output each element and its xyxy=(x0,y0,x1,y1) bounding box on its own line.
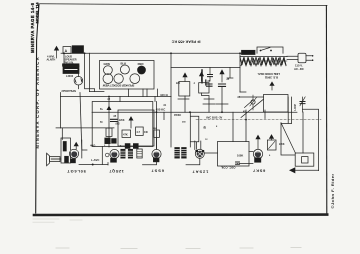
svg-text:AVC BUS -3V: AVC BUS -3V xyxy=(206,116,223,120)
svg-text:L4032: L4032 xyxy=(66,75,74,78)
wire osc box verticals xyxy=(233,112,246,141)
arrow above V5 xyxy=(255,135,260,149)
wire V4 to osc box xyxy=(204,152,217,154)
capacitor C4 xyxy=(207,84,213,86)
bleed-through marks xyxy=(33,219,301,249)
svg-text:40Ω: 40Ω xyxy=(90,143,96,147)
wire misc jogs xyxy=(155,97,265,120)
resistor R7 xyxy=(154,130,160,149)
IF coil T-A primary xyxy=(121,149,125,158)
socket pin 1 xyxy=(104,66,113,75)
socket pin 5 xyxy=(114,74,123,83)
svg-text:12SQ7: 12SQ7 xyxy=(109,169,124,174)
left audio box xyxy=(92,102,153,147)
rectifier filter box xyxy=(264,95,289,113)
wire socket box feed xyxy=(89,53,104,91)
svg-text:LOOP: LOOP xyxy=(295,104,297,111)
arrow A3 xyxy=(199,71,204,81)
oscillator section vertical xyxy=(170,53,172,147)
svg-text:22K: 22K xyxy=(176,83,181,85)
AVC dashed bus xyxy=(196,119,321,121)
svg-text:50: 50 xyxy=(100,122,103,124)
tube V2 12SQ7 xyxy=(105,149,119,165)
svg-text:L-AVC: L-AVC xyxy=(91,158,99,162)
socket pin 2 xyxy=(120,65,129,74)
svg-text:LINE CORD RES.: LINE CORD RES. xyxy=(257,72,280,76)
svg-text:440: 440 xyxy=(144,131,149,134)
wire osc box to V5 xyxy=(249,151,253,153)
wire osc jog xyxy=(202,93,216,112)
line cord resistor (ballast zigzag) xyxy=(240,57,287,66)
loop coil wires xyxy=(281,97,292,124)
page header text xyxy=(30,2,40,53)
wire horizontal y126 xyxy=(56,127,114,129)
svg-text:.25: .25 xyxy=(226,79,230,81)
phone jack circle xyxy=(74,74,83,89)
svg-text:8: 8 xyxy=(216,126,218,128)
antenna wave-trap arrow xyxy=(54,46,59,58)
svg-text:47K: 47K xyxy=(123,133,128,137)
svg-text:100K: 100K xyxy=(237,154,243,158)
capacitor C8 xyxy=(236,162,240,164)
svg-text:©John F. Rider: ©John F. Rider xyxy=(330,173,335,208)
wire vertical x79.5 xyxy=(80,93,82,151)
IF coil T1 secondary xyxy=(182,148,187,159)
resistor R1 xyxy=(106,128,112,136)
arrow A5 xyxy=(269,81,274,90)
value label cluster xyxy=(100,79,297,146)
svg-text:.01: .01 xyxy=(163,105,167,107)
wire loop left leg xyxy=(281,123,295,155)
wire diag X xyxy=(241,99,264,117)
AC switch label (dark) xyxy=(242,50,256,54)
svg-text:RED: RED xyxy=(138,62,144,66)
wire bus y112 (B+) xyxy=(92,111,297,113)
arrow in det box xyxy=(129,116,134,120)
wire bus y101 xyxy=(60,96,62,98)
speaker socket view box xyxy=(100,61,155,90)
svg-text:6SK7: 6SK7 xyxy=(252,169,265,174)
wire osc drop xyxy=(239,53,241,92)
arrow A4 xyxy=(219,69,224,82)
antenna triangle xyxy=(289,167,319,173)
capacitor C2 (dark) xyxy=(105,138,116,144)
svg-text:GRN: GRN xyxy=(104,62,110,66)
svg-text:455 KC: 455 KC xyxy=(156,108,165,112)
svg-text:455KC: 455KC xyxy=(174,114,181,117)
output field coil (dark box) xyxy=(63,64,80,74)
svg-text:250: 250 xyxy=(182,122,186,124)
svg-text:12SA7: 12SA7 xyxy=(192,170,209,175)
loop antenna box xyxy=(295,153,314,166)
svg-text:12: 12 xyxy=(205,139,208,141)
capacitor C3 (dark) xyxy=(125,144,138,149)
speaker SP xyxy=(47,153,61,166)
switch box S1 xyxy=(63,47,71,54)
resistor R6 xyxy=(267,140,276,150)
capacitor C9 xyxy=(208,67,213,81)
svg-text:220K: 220K xyxy=(119,120,125,122)
svg-text:220K: 220K xyxy=(279,144,285,146)
svg-text:A: A xyxy=(65,49,68,53)
svg-text:.002: .002 xyxy=(115,124,120,126)
junction dots xyxy=(63,52,247,120)
wire switch drop xyxy=(64,53,95,91)
tube V4 12SA7 xyxy=(186,141,204,165)
wire bus y96 xyxy=(61,96,171,98)
trimmer C7 xyxy=(300,97,305,112)
svg-text:MINERVA CORP. OF AMERICA: MINERVA CORP. OF AMERICA xyxy=(35,56,40,148)
wire extras xyxy=(120,89,246,149)
tube V1 50L6GT xyxy=(69,140,87,163)
svg-text:6SS7: 6SS7 xyxy=(151,169,164,174)
trimmer C6 xyxy=(240,95,264,110)
svg-text:.02: .02 xyxy=(107,99,111,101)
output transformer T2 xyxy=(61,138,71,163)
svg-text:ALNTH: ALNTH xyxy=(47,58,56,62)
wire osc bus y67 xyxy=(171,66,240,68)
svg-text:6: 6 xyxy=(269,155,271,157)
socket pin labels xyxy=(104,62,144,66)
svg-text:B+: B+ xyxy=(100,109,104,111)
volume control pot xyxy=(137,149,142,158)
svg-text:SPEAKER SOCKET VIEW: SPEAKER SOCKET VIEW xyxy=(102,84,134,88)
wire loop drop xyxy=(302,112,304,153)
wire loop diagonal xyxy=(281,123,296,153)
wire osc stub xyxy=(227,67,233,78)
resistor R5 xyxy=(199,70,209,93)
IF coil T-A secondary xyxy=(128,149,132,158)
arrow above V1 xyxy=(74,142,79,149)
svg-text:440 Ω: 440 Ω xyxy=(160,93,168,97)
tube V3 6SS7 xyxy=(143,149,162,164)
wire socket to bus xyxy=(129,89,158,97)
svg-text:.1: .1 xyxy=(193,83,196,85)
resistor R2 xyxy=(122,130,131,137)
wire cathode V5 xyxy=(238,163,254,165)
frame right border xyxy=(325,6,327,214)
label line cord res xyxy=(257,72,280,80)
socket pin 3 (dark) xyxy=(138,66,146,74)
wire R4 bottom xyxy=(178,96,189,99)
label under switch boxes xyxy=(64,56,77,65)
arrow above R1 xyxy=(107,106,112,110)
node junction xyxy=(92,164,94,166)
svg-text:50L6GT: 50L6GT xyxy=(66,169,85,174)
frame left border xyxy=(36,4,39,213)
oscillator coil box xyxy=(218,142,250,167)
pin number marks xyxy=(104,110,271,157)
label 115V AC-DC xyxy=(294,64,304,71)
wire left vertical xyxy=(61,93,63,140)
svg-text:a: a xyxy=(203,125,206,130)
det box xyxy=(118,110,154,146)
svg-text:4.7: 4.7 xyxy=(136,130,140,134)
wire V2 grid return xyxy=(101,147,103,165)
resistor R3 xyxy=(136,127,144,135)
socket pin 6 xyxy=(130,74,140,84)
svg-text:.05: .05 xyxy=(113,116,117,118)
resistor R4 xyxy=(179,82,190,96)
wire x109 plate xyxy=(108,97,110,148)
frame bottom border xyxy=(34,213,327,216)
IF coil T1 primary xyxy=(175,148,180,159)
capacitor C1 xyxy=(111,119,118,121)
padder cap C5 xyxy=(219,84,226,86)
frame top border xyxy=(40,4,327,6)
wire det arrow stem xyxy=(130,121,132,129)
wire padder stem xyxy=(216,86,228,104)
wire V4 grid verticals xyxy=(190,112,199,149)
line cord wires xyxy=(287,56,298,59)
wire top B- bus xyxy=(61,52,242,54)
svg-text:50K: 50K xyxy=(153,128,157,130)
svg-text:OSC. COIL: OSC. COIL xyxy=(220,166,235,170)
wave trap label xyxy=(47,55,56,62)
on-off switch xyxy=(257,47,283,53)
wire trimmer to right xyxy=(303,109,319,170)
arrow A2 xyxy=(182,72,187,81)
svg-text:MODEL 114: MODEL 114 xyxy=(35,2,40,24)
arrow above R6 xyxy=(269,134,274,140)
wire under V1 xyxy=(79,164,108,166)
svg-text:AC--DC: AC--DC xyxy=(294,67,304,71)
svg-text:IF PEAK 455 KC: IF PEAK 455 KC xyxy=(171,39,200,43)
AC plug P1 xyxy=(298,53,313,63)
socket pin 4 xyxy=(103,74,113,84)
svg-text:SPEAKER: SPEAKER xyxy=(61,89,76,93)
tube V5 6SK7 xyxy=(253,149,262,162)
switch box S2 (dark) xyxy=(72,46,83,54)
